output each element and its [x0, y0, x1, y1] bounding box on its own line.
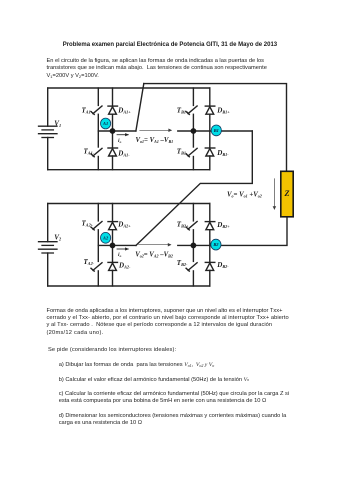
diode DB1+: [205, 88, 215, 114]
svg-text:A1: A1: [102, 121, 108, 126]
wire top rail bridge 1: [48, 87, 210, 89]
current arrow io bridge 2: [117, 248, 129, 250]
svg-text:TA1+: TA1+: [82, 106, 94, 114]
svg-text:DA2+: DA2+: [117, 220, 131, 228]
node junction dot A2: [110, 243, 116, 249]
node junction dot A1: [110, 128, 116, 134]
wire left rail bridge 2 lower: [47, 253, 49, 286]
svg-text:Vo= Vo1 +Vo2: Vo= Vo1 +Vo2: [227, 191, 262, 198]
wire A1 to load top: [144, 84, 287, 172]
svg-text:DB2+: DB2+: [216, 221, 230, 229]
svg-text:TB1-: TB1-: [177, 147, 188, 155]
svg-text:B1: B1: [213, 128, 219, 133]
wire left rail bridge 2 upper: [47, 204, 49, 242]
svg-text:V1: V1: [54, 120, 61, 128]
wire top rail bridge 2: [48, 203, 210, 205]
svg-text:TB2-: TB2-: [177, 259, 188, 267]
svg-text:V2: V2: [54, 233, 62, 241]
wire left rail bridge 1 lower: [47, 138, 49, 170]
svg-text:TA1-: TA1-: [84, 147, 95, 155]
transistor TB2+: [186, 204, 197, 230]
wire bottom rail bridge 1: [48, 169, 210, 171]
diode DA2+: [108, 204, 118, 230]
transistor TA1+: [91, 88, 102, 114]
voltage arrow Vo at load: [273, 178, 275, 209]
svg-text:io: io: [118, 252, 122, 258]
battery V1: [39, 126, 58, 137]
battery V2: [39, 242, 58, 253]
node B1: [211, 125, 221, 136]
svg-text:io: io: [118, 138, 122, 144]
wire mid rail A2: [98, 244, 136, 246]
svg-text:TB2+: TB2+: [177, 220, 189, 228]
svg-text:TA2-: TA2-: [84, 258, 95, 266]
transistor TB2-: [186, 230, 197, 286]
wire mid rail A1: [98, 130, 136, 132]
svg-text:DB1-: DB1-: [216, 149, 229, 157]
voltage arrow Vo1: [139, 129, 171, 131]
transistor TA2-: [91, 230, 102, 286]
svg-text:Z: Z: [283, 189, 289, 198]
svg-text:Vo2= VA2 –VB2: Vo2= VA2 –VB2: [135, 251, 173, 258]
svg-text:DB1+: DB1+: [216, 106, 230, 114]
node A1: [101, 118, 111, 129]
transistor TA2+: [91, 204, 102, 230]
svg-text:DB2-: DB2-: [216, 261, 229, 269]
node junction dot B1: [191, 128, 197, 134]
node B2: [211, 239, 221, 250]
transistor TA1-: [91, 114, 102, 169]
wire left rail bridge 1 upper: [47, 88, 49, 126]
wire B1 to A2 link: [136, 131, 252, 245]
transistor TB1+: [186, 88, 197, 114]
diode DB2-: [205, 230, 215, 286]
wire diagonal A1 to load: [136, 84, 144, 131]
load Z: [281, 171, 293, 217]
wire bottom rail bridge 2: [48, 285, 210, 287]
svg-text:DA1+: DA1+: [117, 106, 131, 114]
diode DA1-: [108, 114, 118, 170]
diode DB2+: [205, 204, 215, 230]
diode DA2-: [108, 230, 118, 286]
voltage arrow Vo2: [138, 244, 171, 246]
svg-text:DA1-: DA1-: [117, 149, 130, 157]
svg-text:TB1+: TB1+: [177, 106, 189, 114]
svg-text:TA2+: TA2+: [82, 219, 94, 227]
node A2: [101, 232, 111, 243]
current arrow io bridge 1: [117, 134, 129, 136]
diode DB1-: [205, 114, 215, 170]
diode DA1+: [108, 88, 118, 114]
svg-text:Vo1= VA1 –VB1: Vo1= VA1 –VB1: [136, 137, 174, 144]
svg-text:DA2-: DA2-: [118, 262, 131, 270]
wire mid rail B2 to load bottom: [178, 217, 287, 246]
transistor TB1-: [186, 114, 197, 169]
node junction dot B2: [191, 243, 197, 249]
svg-text:B2: B2: [212, 242, 219, 247]
wire mid rail B1: [178, 130, 253, 132]
svg-text:A2: A2: [102, 235, 109, 240]
